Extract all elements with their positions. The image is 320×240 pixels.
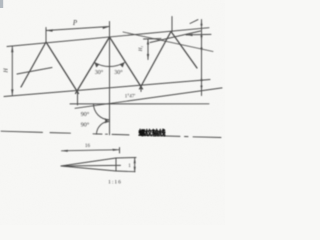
tooth 1 left flank xyxy=(21,42,46,87)
90° arc at axis crossing xyxy=(97,121,110,134)
wedge top edge extension xyxy=(116,157,136,160)
tooth centerline through P2 xyxy=(109,22,111,135)
short pitch segment near tooth 1 xyxy=(17,68,52,75)
wedge right dimension (1) xyxy=(134,158,136,172)
right dimension line R xyxy=(201,20,203,96)
scan artifact: gray corner block xyxy=(0,0,3,8)
crest truncation line C2 xyxy=(150,31,201,43)
90° arc at pitch crossing xyxy=(94,104,110,120)
slanted leader line M xyxy=(123,32,213,52)
wedge right edge xyxy=(115,158,117,171)
pitch taper line L4 (1°47') xyxy=(75,88,222,108)
tick below valley V2 xyxy=(140,86,142,92)
crest apex line C1 xyxy=(7,28,209,47)
tooth 1 apex extension xyxy=(45,28,47,43)
R arrowheads xyxy=(200,20,202,26)
wedge bottom edge extension xyxy=(116,170,135,173)
tooth 3 apex extension xyxy=(171,17,173,32)
P dimension line xyxy=(46,27,110,31)
tooth 2 right flank xyxy=(110,37,143,89)
tick below valley V1 xyxy=(77,91,79,105)
root line xyxy=(4,80,210,97)
h1 dimension (middle) xyxy=(147,39,149,60)
horizontal reference line H1 xyxy=(70,103,209,105)
wedge top dimension (16) xyxy=(62,150,120,151)
tooth 3 right flank xyxy=(171,32,197,69)
30° angle arc under apex P2 xyxy=(95,63,125,67)
tooth 2 left flank xyxy=(76,37,110,94)
wedge bottom edge xyxy=(61,166,116,171)
R top leader tick xyxy=(190,20,198,24)
tooth 3 left flank xyxy=(140,32,172,90)
wedge top edge xyxy=(61,158,116,166)
P dim arrowheads xyxy=(46,27,110,32)
R short horizontal arrow line xyxy=(186,33,211,36)
H dimension line (left) xyxy=(11,46,13,95)
thread axis (dash-dot centerline) xyxy=(1,131,43,132)
wedge middle line xyxy=(61,164,121,167)
paper noise overlay xyxy=(0,0,225,225)
tooth 1 right flank xyxy=(46,42,79,94)
